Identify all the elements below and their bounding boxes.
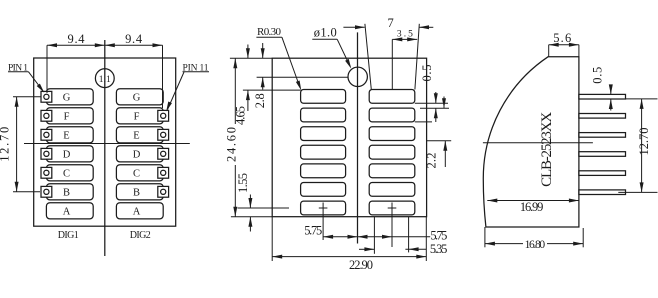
body — [272, 58, 426, 217]
pads left column G F E D C B — [41, 91, 169, 197]
dim 16.80 — [485, 227, 583, 247]
svg-text:5.6: 5.6 — [553, 31, 571, 45]
svg-text:1.1: 1.1 — [99, 75, 111, 85]
centerline — [357, 32, 359, 243]
pins — [579, 94, 626, 99]
segment boxes DIG2 — [116, 89, 163, 105]
dim 0.5 middle — [415, 92, 449, 122]
svg-text:22.90: 22.90 — [349, 258, 373, 272]
svg-text:C: C — [133, 169, 140, 180]
svg-text:2.8: 2.8 — [253, 93, 267, 108]
svg-text:24.60: 24.60 — [224, 127, 238, 162]
pads right column F E D C B — [158, 110, 169, 121]
svg-text:D: D — [63, 150, 71, 161]
dims 9.4 9.4 — [47, 45, 163, 108]
dim 16.99 — [487, 200, 579, 202]
svg-text:4.65: 4.65 — [234, 106, 248, 125]
vertical centerline — [104, 40, 106, 256]
svg-text:5.35: 5.35 — [430, 242, 448, 256]
slots left column — [301, 90, 346, 104]
dim 0.5 right view — [610, 85, 612, 111]
dim 2.8 — [257, 43, 348, 90]
svg-text:B: B — [133, 188, 140, 199]
segment boxes DIG1 — [46, 89, 93, 105]
svg-text:DIG2: DIG2 — [130, 230, 151, 241]
dim 12.70 left — [13, 97, 41, 192]
plus marks — [319, 207, 328, 209]
svg-text:DIG1: DIG1 — [58, 230, 79, 241]
slots right column — [369, 90, 415, 104]
svg-text:9.4: 9.4 — [125, 32, 143, 46]
svg-text:5.75: 5.75 — [304, 223, 322, 237]
dim 5.6 — [549, 45, 579, 57]
dim 22.90 — [272, 217, 426, 261]
svg-text:R0.30: R0.30 — [257, 26, 282, 38]
svg-text:G: G — [133, 93, 141, 104]
svg-text:0.5: 0.5 — [590, 67, 604, 84]
dim 4.65 — [243, 45, 301, 112]
svg-text:A: A — [63, 207, 71, 218]
svg-text:B: B — [63, 188, 70, 199]
svg-text:D: D — [133, 150, 141, 161]
svg-text:F: F — [64, 112, 70, 123]
svg-text:C: C — [63, 169, 70, 180]
body profile — [483, 57, 579, 227]
svg-text:7: 7 — [387, 16, 393, 30]
centerline right view — [483, 142, 593, 144]
body outline — [34, 58, 176, 226]
hole circle — [348, 67, 367, 86]
svg-text:CLB-2523XX: CLB-2523XX — [539, 112, 555, 187]
dim 2.2 — [415, 97, 451, 168]
pad holes left column — [44, 94, 49, 99]
svg-text:G: G — [63, 93, 71, 104]
svg-text:E: E — [63, 131, 69, 142]
circle 1.1 — [95, 69, 114, 88]
svg-text:9.4: 9.4 — [68, 32, 86, 46]
dim 12.70 right view — [618, 99, 657, 192]
svg-text:12.70: 12.70 — [0, 127, 11, 162]
dim 1.55 — [238, 195, 290, 232]
segment letters DIG1 — [63, 93, 141, 218]
svg-text:ø1.0: ø1.0 — [314, 25, 337, 39]
svg-text:2.2: 2.2 — [424, 153, 438, 169]
svg-text:E: E — [133, 131, 139, 142]
svg-text:A: A — [133, 207, 141, 218]
svg-text:12.70: 12.70 — [637, 128, 651, 156]
svg-text:1.55: 1.55 — [236, 173, 250, 193]
pad holes right column — [161, 113, 166, 118]
svg-text:16.99: 16.99 — [520, 200, 544, 214]
dim 24.60 — [230, 58, 272, 217]
bottom dims 5.75 5.75 — [323, 237, 430, 244]
svg-text:5.75: 5.75 — [430, 229, 447, 243]
svg-text:16.80: 16.80 — [525, 239, 546, 251]
horizontal centerline — [24, 143, 190, 145]
svg-text:0.5: 0.5 — [420, 65, 434, 82]
dim 5.35 row — [359, 217, 426, 254]
svg-text:F: F — [134, 112, 140, 123]
